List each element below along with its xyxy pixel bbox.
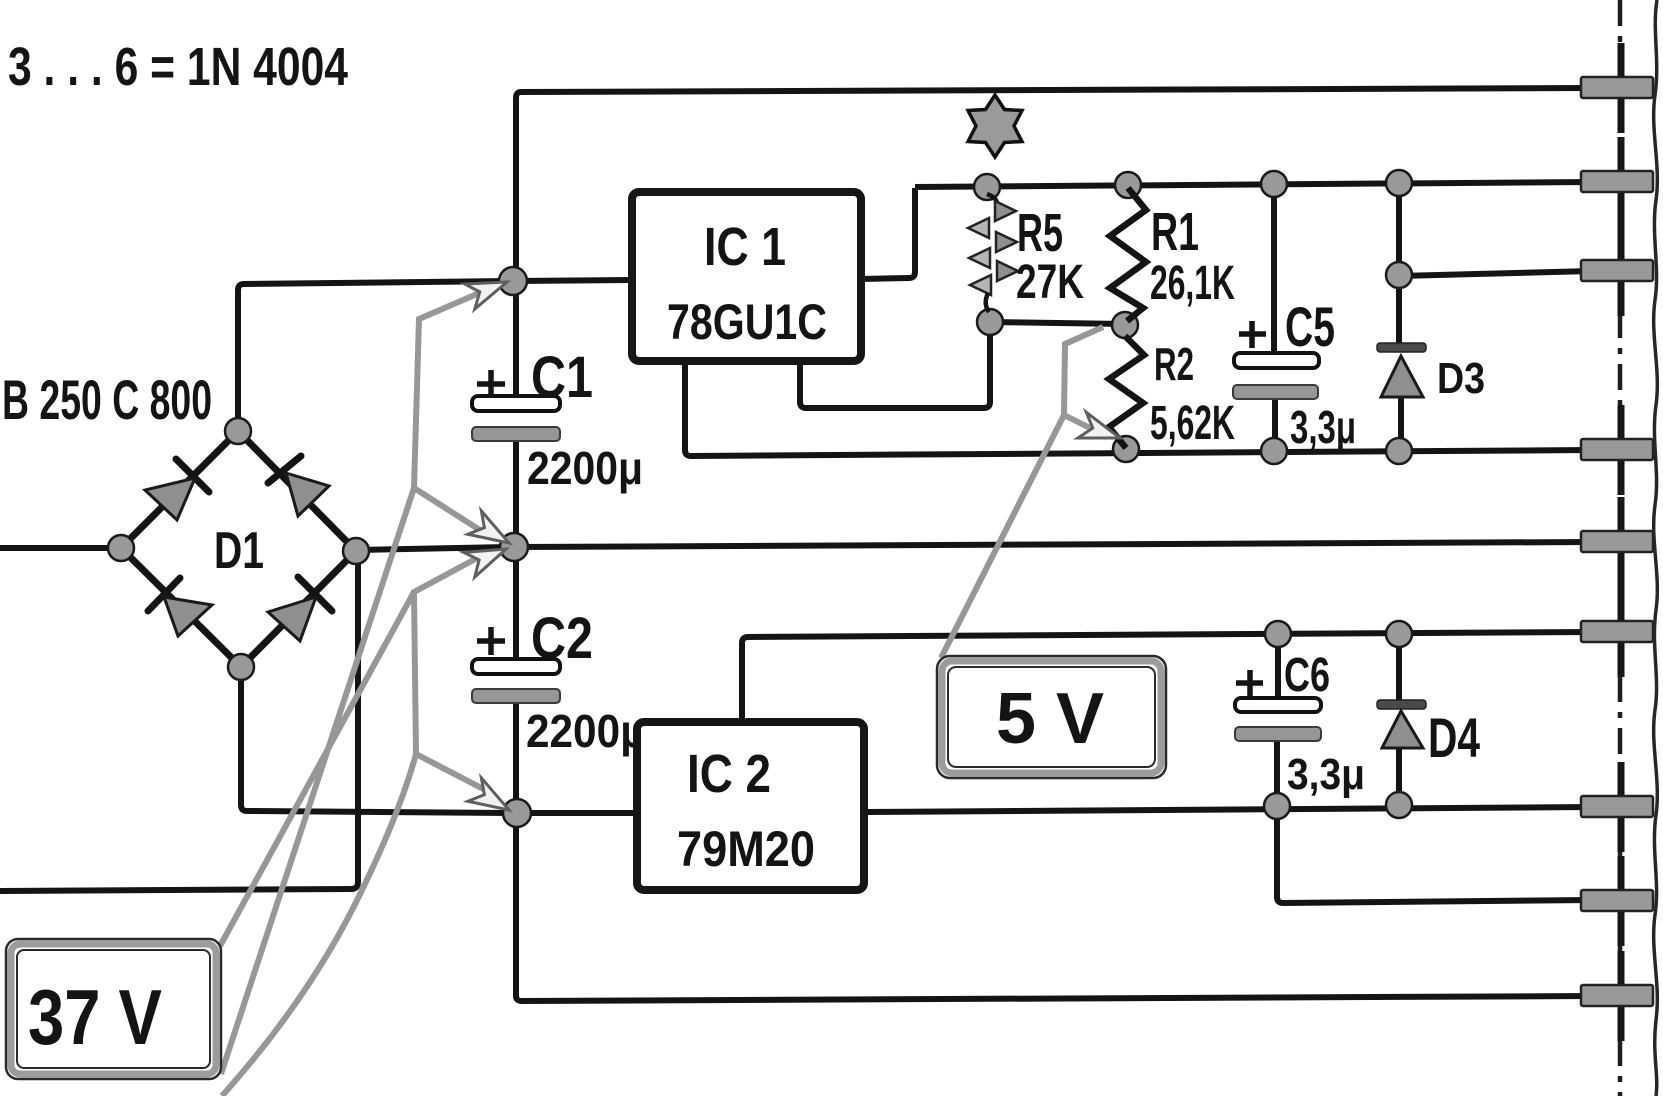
svg-text:C1: C1	[531, 345, 593, 410]
D1 diode top-right cathode bar	[268, 456, 301, 483]
5V leader branch to R2 bottom arrow	[1064, 415, 1096, 431]
D1 node left	[108, 535, 134, 561]
node R1 top	[1115, 172, 1141, 198]
C6 plate negative	[1235, 727, 1321, 741]
D1 diode bottom-left cathode bar	[148, 578, 180, 611]
label 37V arrow at mid node (upper)	[468, 511, 516, 554]
label 37V arrow at mid node (lower)	[464, 536, 512, 577]
wire D3 junction to pad3	[1399, 271, 1592, 276]
D1 diode bottom-right cathode bar	[298, 577, 332, 611]
svg-text:R2: R2	[1154, 338, 1194, 390]
C6 polarity plus	[1236, 670, 1263, 697]
R5 top hook	[987, 194, 997, 207]
C5 polarity plus	[1239, 321, 1266, 348]
node R2 bottom	[1113, 436, 1139, 462]
wire C5 top lead	[1271, 185, 1277, 356]
svg-text:3,3μ: 3,3μ	[1290, 401, 1356, 453]
wire left vertical bottom segment + bottom outer rail	[516, 703, 1592, 1001]
svg-text:D4: D4	[1428, 706, 1480, 769]
connector pads column	[1581, 43, 1653, 1041]
svg-text:2200μ: 2200μ	[526, 705, 646, 757]
capacitor C5	[1233, 295, 1356, 453]
label box 37V	[6, 939, 221, 1079]
svg-text:37 V: 37 V	[28, 973, 162, 1061]
svg-text:79M20: 79M20	[677, 821, 815, 877]
D1 node right	[343, 538, 369, 564]
node D3 bottom	[1386, 438, 1412, 464]
wire junction to IC1 left	[514, 280, 632, 281]
D1 diode bottom-left triangle	[164, 597, 212, 636]
wire IC1 bottom pin B to R5 bottom	[800, 326, 990, 408]
wire AC1 input left	[0, 545, 118, 551]
node R5 bottom	[977, 309, 1003, 335]
svg-text:5,62K: 5,62K	[1150, 397, 1235, 450]
wire C5 bottom lead	[1272, 398, 1278, 451]
5V box frame	[937, 656, 1166, 778]
wire top outer rail	[516, 88, 1592, 398]
capacitor C1	[472, 345, 643, 494]
node R1/R2 junction	[1112, 312, 1138, 338]
svg-text:26,1K: 26,1K	[1150, 257, 1235, 310]
node C5 top	[1261, 171, 1287, 197]
IC2 body box	[637, 722, 864, 890]
pad 4	[1581, 405, 1653, 495]
pad 7	[1581, 762, 1653, 852]
svg-text:R1: R1	[1151, 202, 1199, 262]
D1 diode top-left triangle	[145, 478, 195, 520]
wire top distribution rail	[915, 182, 1592, 187]
resistor R5	[968, 194, 1084, 312]
C5 plate positive	[1234, 353, 1319, 368]
svg-text:D3: D3	[1437, 354, 1485, 403]
D1 node top	[225, 418, 251, 444]
wire D3 top lead	[1396, 184, 1402, 345]
wire R5 bottom to R1/R2 junction	[990, 322, 1125, 324]
D1 diode top-left cathode bar	[176, 459, 209, 492]
D4 anode triangle	[1382, 711, 1423, 748]
wire AC2 input	[0, 554, 358, 891]
wire left vertical C1-C2 mid segment	[513, 440, 519, 662]
node D3 mid junction	[1386, 262, 1412, 288]
D1 diode bottom-right triangle	[268, 597, 316, 641]
chain line (cut boundary)	[1618, 0, 1623, 1096]
capacitor C6	[1235, 649, 1365, 799]
node C5 bottom	[1261, 438, 1287, 464]
wire D1 right node to mid junction	[358, 547, 512, 550]
C1 plate positive	[472, 396, 560, 411]
D3 cathode bar	[1377, 343, 1426, 352]
node junction 0V mid	[500, 533, 528, 561]
label 37V arrow at -37 node	[468, 778, 516, 821]
svg-text:IC 2: IC 2	[687, 744, 771, 804]
svg-text:R5: R5	[1017, 203, 1063, 263]
svg-text:C6: C6	[1284, 649, 1330, 702]
IC1 body box	[632, 192, 861, 361]
wire mid rail to pad5	[517, 542, 1592, 547]
svg-text:2200μ: 2200μ	[527, 442, 643, 494]
R5 bottom hook	[986, 293, 989, 312]
label 37V leader lines	[220, 291, 494, 1096]
wire C6 bottom lead	[1274, 741, 1280, 806]
wire D1 plus to junction	[238, 281, 510, 432]
label box 5V	[937, 656, 1166, 778]
pad 5	[1581, 497, 1653, 587]
37V leader lower assembly to -37 node, exiting bottom	[222, 557, 479, 1096]
D1 diamond edge bottom-right	[241, 551, 356, 667]
wire D1 minus down and right to junction	[241, 669, 512, 813]
node D4 top	[1386, 621, 1412, 647]
D4 cathode bar	[1377, 700, 1426, 709]
torn sheet edge line	[1654, 0, 1658, 1096]
op-amp IC1 regulator box	[632, 192, 861, 361]
wire junction to IC2 left	[519, 810, 637, 816]
node C6 top	[1265, 621, 1291, 647]
resistor R2	[1109, 336, 1235, 450]
wire D4 top lead	[1396, 634, 1402, 701]
37V leader diagonal to box top corner	[220, 592, 414, 946]
svg-text:5 V: 5 V	[996, 679, 1104, 759]
C5 plate negative	[1233, 385, 1318, 399]
svg-text:3 . . . 6 = 1N 4004: 3 . . . 6 = 1N 4004	[8, 37, 348, 97]
svg-text:78GU1C: 78GU1C	[667, 294, 827, 350]
C2 polarity plus	[477, 627, 505, 655]
pad 3	[1581, 226, 1653, 316]
C2 plate positive	[472, 659, 560, 674]
diode D3	[1377, 343, 1485, 403]
label 37V arrow at +37 node	[465, 269, 512, 309]
C1 plate negative	[472, 427, 560, 441]
op-amp IC2 regulator box	[637, 722, 864, 890]
node C6 bottom	[1264, 793, 1290, 819]
D1 diamond edge top-right	[238, 431, 356, 551]
R2 zigzag body	[1109, 336, 1144, 448]
svg-text:C2: C2	[531, 606, 593, 671]
D1 diamond edge bottom-left	[121, 548, 241, 667]
capacitor C2	[472, 606, 646, 757]
37V leader to +37 node and down to box bottom corner	[221, 291, 484, 1074]
node junction +37V	[499, 267, 527, 295]
5V leader from R1/R2 junction to box corner	[941, 327, 1103, 658]
node junction -37V	[503, 799, 531, 827]
pad 2	[1581, 137, 1653, 227]
37V leader branch to mid node	[414, 488, 494, 539]
star marker	[968, 95, 1022, 157]
D3 anode triangle	[1381, 356, 1423, 397]
label 5V leader lines	[941, 327, 1103, 658]
bridge rectifier D1	[108, 418, 369, 680]
37V box frame	[6, 939, 221, 1079]
wire IC2 top pin and 5V rail to pad6	[742, 632, 1592, 722]
D1 node bottom	[228, 654, 254, 680]
wire D4 bottom lead	[1396, 747, 1402, 805]
R1 zigzag body	[1110, 188, 1146, 321]
resistor R1	[1110, 188, 1235, 321]
node R5 top	[974, 174, 1000, 200]
pad 6	[1581, 587, 1653, 677]
37V leader branch to -37 arrow	[416, 754, 491, 793]
svg-text:D1: D1	[214, 522, 264, 580]
wire IC2 right rail to pad7	[864, 807, 1592, 812]
D1 diode top-right triangle	[286, 473, 329, 516]
D1 diamond edge top-left	[121, 431, 238, 548]
node D4 bottom	[1386, 792, 1412, 818]
C2 plate negative	[472, 689, 560, 703]
svg-text:3,3μ: 3,3μ	[1287, 750, 1365, 799]
wire D3 bottom lead	[1398, 395, 1404, 451]
wire C6 top lead	[1275, 635, 1281, 700]
svg-text:C5: C5	[1285, 295, 1335, 358]
wire C6 bottom to pad8 rail	[1277, 808, 1592, 903]
C1 polarity plus	[477, 370, 505, 398]
svg-text:27K: 27K	[1016, 256, 1084, 309]
node D3 top	[1386, 170, 1412, 196]
pad 9	[1581, 951, 1653, 1041]
diode D4	[1377, 700, 1480, 769]
wire IC1 right to top rail corner	[861, 188, 915, 279]
label 5V arrow at R2 bottom	[1078, 412, 1124, 450]
pad 8	[1581, 856, 1653, 946]
C6 plate positive	[1235, 698, 1321, 712]
svg-text:IC 1: IC 1	[704, 217, 786, 277]
svg-text:B 250 C 800: B 250 C 800	[2, 368, 212, 431]
wire IC1 bottom pin A + bottom rail to pad4	[685, 360, 1592, 456]
pad 1	[1581, 43, 1653, 133]
